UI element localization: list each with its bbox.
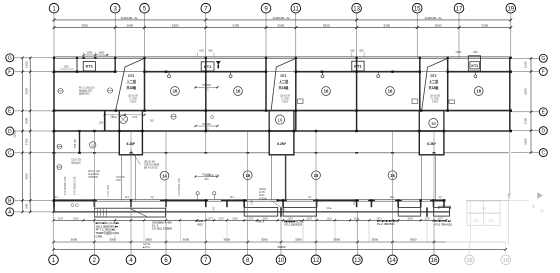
svg-text:3230: 3230 <box>232 217 238 220</box>
svg-text:16: 16 <box>476 89 481 94</box>
svg-text:1300: 1300 <box>63 67 69 69</box>
grid bubble 5 (top) <box>140 3 150 13</box>
svg-text:1900: 1900 <box>24 117 28 124</box>
dimension tick <box>29 152 31 154</box>
column (top wall) <box>53 57 55 59</box>
svg-text:16: 16 <box>173 89 178 94</box>
svg-text:2330: 2330 <box>73 217 79 220</box>
grid bubble A (left) <box>6 208 14 216</box>
beam tag circle <box>243 171 252 180</box>
column (wall B) <box>432 199 434 201</box>
opening rect 3 <box>449 100 455 103</box>
grid bubble 8 (bottom) <box>243 255 253 265</box>
bottom fine dimension line <box>54 219 447 221</box>
svg-text:75×200: 75×200 <box>202 122 211 126</box>
wall stub x77 <box>76 57 78 71</box>
svg-text:620: 620 <box>208 49 213 53</box>
in-plan dim 75×200 <box>196 86 218 88</box>
grid bubble 7 (top) <box>201 3 211 13</box>
grid bubble 13 (bottom) <box>353 255 363 265</box>
beam tag circle <box>234 87 243 96</box>
circle-cross symbol (wall 1 b) <box>57 165 62 170</box>
dimension tick <box>196 219 198 221</box>
beam tag circle <box>312 171 321 180</box>
grid leader C (left) <box>15 152 54 154</box>
grid line 11 extension (top) <box>295 13 297 58</box>
dimension tick <box>93 241 95 243</box>
column (wall E) <box>355 109 357 111</box>
circled tag (unit 2 shaft) <box>275 115 284 124</box>
column (top wall) <box>94 57 96 59</box>
svg-text:7x800: 7x800 <box>130 101 137 104</box>
dimension tick <box>29 71 31 73</box>
svg-text:6.2M²: 6.2M² <box>427 142 437 146</box>
KT box 3 <box>352 61 364 71</box>
grid bubble 11 (top) <box>291 3 301 13</box>
interior wall x285.6 <box>285 155 287 201</box>
svg-text:13: 13 <box>354 258 361 264</box>
grid bubble D (right) <box>539 127 547 135</box>
svg-text:750: 750 <box>481 207 486 211</box>
svg-text:10: 10 <box>278 258 285 264</box>
grid line 1 extension (top) <box>53 13 55 58</box>
grid bubble 14 (bottom) <box>388 255 398 265</box>
dimension tick <box>530 57 532 59</box>
top bay dimension line <box>54 27 511 29</box>
grid bubble 19 (top) <box>506 3 516 13</box>
svg-text:300: 300 <box>204 89 209 92</box>
svg-text:1Z-1: 1Z-1 <box>390 197 395 199</box>
column (wall D) <box>315 130 317 132</box>
faint vertical line x470 <box>469 200 471 242</box>
column (top wall) <box>143 57 145 59</box>
svg-text:G: G <box>541 56 545 62</box>
grid line 5 extension (top) <box>144 13 146 58</box>
right dimension line <box>530 58 532 152</box>
column (top wall) <box>83 57 85 59</box>
wall B dark segments <box>54 199 98 201</box>
faint underlay line <box>466 199 509 201</box>
porch box right-2 <box>434 207 450 216</box>
dimension tick <box>315 241 317 243</box>
svg-text:39600: 39600 <box>277 245 286 249</box>
left dimension line inner <box>29 58 31 212</box>
grid bubble E (left) <box>6 107 14 115</box>
column (top wall) <box>295 57 297 59</box>
svg-text:3600: 3600 <box>333 237 340 241</box>
KT box 4 <box>468 56 480 71</box>
shaft box 1 (6.2M) <box>119 131 142 155</box>
svg-text:27L·B15 150B50: 27L·B15 150B50 <box>152 227 173 231</box>
grid line 2 extension (bottom) <box>93 242 95 255</box>
wall on grid B <box>54 199 446 201</box>
dimension tick <box>204 26 207 29</box>
dimension tick <box>29 57 31 59</box>
dimension tick <box>416 26 419 29</box>
svg-text:Y10.75W30 1100: Y10.75W30 1100 <box>74 176 77 195</box>
grid bubble G (left) <box>6 54 14 62</box>
grid leader B (left) <box>15 200 54 202</box>
column (wall D) <box>93 130 95 132</box>
svg-text:1320: 1320 <box>326 217 332 220</box>
dimension tick <box>243 219 245 221</box>
grid bubble 17 (top) <box>454 3 464 13</box>
fixture symbol <box>474 75 477 78</box>
dimension tick <box>179 219 181 221</box>
wall on grid 7 <box>205 57 207 131</box>
svg-text:19: 19 <box>507 6 514 12</box>
grid line (lower plan) <box>357 212 359 242</box>
grid bubble C (right) <box>539 149 547 157</box>
svg-text:150: 150 <box>474 219 479 223</box>
grid line (lower plan) <box>53 212 55 242</box>
svg-text:11800: 11800 <box>13 130 17 138</box>
svg-text:1600: 1600 <box>98 51 104 55</box>
svg-text:1370: 1370 <box>353 217 359 220</box>
grid line 8 extension (bottom) <box>247 242 249 255</box>
dimension tick <box>280 241 282 243</box>
wall on grid 11 <box>295 57 297 131</box>
bottom bay dimension line faint extension <box>446 241 506 243</box>
svg-text:3000: 3000 <box>261 237 268 241</box>
extra thin verticals in dim band <box>114 220 116 242</box>
svg-text:620: 620 <box>350 49 355 53</box>
shaft side walls E to D <box>118 111 120 131</box>
dimension tick <box>458 26 461 29</box>
svg-text:3000: 3000 <box>109 237 116 241</box>
column (wall D) <box>293 130 295 132</box>
grid leader D (left) <box>15 130 54 132</box>
small circle x212 <box>211 116 214 119</box>
svg-text:Y10.75W30 1700: Y10.75W30 1700 <box>64 176 67 195</box>
column (wall F) <box>295 71 297 73</box>
dimension tick <box>205 219 207 221</box>
shaft box 2 side extension <box>270 155 272 201</box>
svg-text:5300: 5300 <box>384 23 391 27</box>
svg-text:3230: 3230 <box>407 217 413 220</box>
svg-text:B1B 7B0: B1B 7B0 <box>75 138 77 148</box>
dimension tick <box>204 19 207 22</box>
svg-text:11: 11 <box>293 6 300 12</box>
dimension tick <box>530 151 532 153</box>
column (wall E) <box>420 109 422 111</box>
svg-text:上二层: 上二层 <box>127 79 137 84</box>
column (wall F) <box>53 71 55 73</box>
svg-text:300: 300 <box>204 178 209 181</box>
svg-text:17: 17 <box>456 6 463 12</box>
svg-text:4T30B: 4T30B <box>259 197 267 200</box>
grid leader G (left) <box>15 57 54 59</box>
beam tag circle <box>474 87 483 96</box>
svg-text:1200: 1200 <box>524 61 528 68</box>
leader line <box>272 201 286 211</box>
fixture symbol <box>168 75 171 78</box>
svg-text:90·: 90· <box>308 197 312 199</box>
grid bubble C (left) <box>6 149 14 157</box>
svg-text:5300: 5300 <box>323 23 330 27</box>
grid bubble 1 (bottom) <box>49 255 59 265</box>
grid bubble 12 (bottom) <box>311 255 321 265</box>
shaft box 1 side extension <box>120 155 122 201</box>
porch box left <box>94 208 165 217</box>
svg-text:P.9M0B 150: P.9M0B 150 <box>206 175 220 178</box>
column (wall B) <box>370 199 372 201</box>
svg-text:6.2M²: 6.2M² <box>277 142 287 146</box>
dimension tick <box>114 26 117 29</box>
dimension tick <box>509 19 512 22</box>
svg-text:KT1: KT1 <box>86 64 94 69</box>
column (top wall) <box>265 57 267 59</box>
hatched circle symbol (unit 1) <box>119 115 127 123</box>
grid bubble E (right) <box>539 108 547 116</box>
svg-text:7x800: 7x800 <box>432 101 439 104</box>
wall on grid A <box>54 211 450 213</box>
dimension tick <box>53 19 56 22</box>
grid bubble 6 (bottom) <box>161 255 171 265</box>
dimension tick <box>82 219 84 221</box>
grid bubble 15 (top) <box>412 3 422 13</box>
svg-text:11200(B—6): 11200(B—6) <box>121 16 138 20</box>
svg-text:1570: 1570 <box>58 217 64 220</box>
dimension tick <box>355 26 358 29</box>
stair-3 right wall <box>447 57 449 110</box>
svg-text:1700: 1700 <box>24 138 28 145</box>
porch gap stub at grid 10 <box>280 207 282 216</box>
column (wall D) <box>418 130 420 132</box>
svg-text:3600: 3600 <box>145 237 152 241</box>
dimension tick <box>93 219 95 221</box>
wall stub D to C at x79.5 <box>79 131 81 153</box>
wall on grid 1 <box>53 57 55 211</box>
circle-cross symbol <box>107 88 112 93</box>
dimension tick <box>247 241 249 243</box>
svg-text:DT1: DT1 <box>430 74 436 78</box>
opening rect 1 <box>298 99 304 104</box>
dimension tick <box>205 241 207 243</box>
svg-text:1Z-1: 1Z-1 <box>230 197 235 199</box>
column (wall B) <box>243 199 245 201</box>
svg-text:750B300: 750B300 <box>88 176 99 179</box>
in-plan dim 75×200 <box>196 176 218 178</box>
grid bubble 2 (bottom) <box>90 255 100 265</box>
KT box 1 <box>83 62 95 72</box>
grid line (lower plan) <box>130 131 132 242</box>
svg-text:KT1: KT1 <box>471 64 478 68</box>
column (wall F) <box>447 71 449 73</box>
svg-text:3600: 3600 <box>24 88 28 95</box>
wall on grid 9 <box>265 57 267 110</box>
column (wall B) <box>420 199 422 201</box>
grid line (lower plan) <box>392 131 394 242</box>
svg-text:DT1: DT1 <box>280 74 286 78</box>
dimension tick <box>334 219 336 221</box>
stair-3 left wall <box>419 57 421 110</box>
grid bubble 13 (top) <box>352 3 362 13</box>
svg-text:300: 300 <box>204 127 209 130</box>
grid leader F (left) <box>15 71 54 73</box>
column (wall E) <box>510 109 512 111</box>
faint grid bubble 18 (bottom) <box>465 255 475 265</box>
dimension tick <box>256 219 258 221</box>
svg-text:3600: 3600 <box>524 88 528 95</box>
svg-text:G: G <box>8 56 12 62</box>
grid leader G (right) <box>511 57 539 59</box>
svg-text:F: F <box>8 70 11 76</box>
column (wall F) <box>205 71 207 73</box>
column (wall F) <box>321 71 323 73</box>
column (top wall) <box>205 57 207 59</box>
grid line 12 extension (bottom) <box>315 242 317 255</box>
wall B/A pier stubs <box>53 201 55 207</box>
dimension tick <box>29 130 31 132</box>
faint vertical line x508.7 <box>508 200 510 245</box>
column (wall B) <box>205 199 207 201</box>
svg-text:1270: 1270 <box>207 217 213 220</box>
wall on grid E <box>54 110 511 112</box>
grid bubble 9 (top) <box>261 3 271 13</box>
grid line 3 extension (top) <box>114 13 116 58</box>
svg-text:13: 13 <box>353 6 360 12</box>
dimension tick <box>509 26 512 29</box>
svg-text:KT1: KT1 <box>204 64 212 69</box>
svg-text:DT1: DT1 <box>128 74 134 78</box>
grid bubble F (left) <box>6 68 14 76</box>
column (wall D) <box>268 130 270 132</box>
grid bubble 7 (bottom) <box>201 255 211 265</box>
svg-text:1570: 1570 <box>437 217 443 220</box>
column (wall D) <box>141 130 143 132</box>
bottom bay dimension line <box>54 241 447 243</box>
grid leader A (left) <box>15 211 54 213</box>
dimension tick <box>530 129 532 131</box>
svg-text:1300: 1300 <box>214 206 216 212</box>
fixture symbol <box>229 75 232 78</box>
dimension tick <box>29 199 31 201</box>
dimension tick <box>53 26 56 29</box>
faint underlay table <box>467 201 500 213</box>
svg-text:150: 150 <box>489 219 494 223</box>
svg-text:1000: 1000 <box>87 51 93 55</box>
grid line 16 extension (bottom) <box>433 242 435 255</box>
shaft box 3 side extension <box>420 155 422 201</box>
svg-text:1000: 1000 <box>524 138 528 145</box>
grid line 19 extension (top) <box>510 13 512 58</box>
svg-text:14: 14 <box>389 258 396 264</box>
stair 2 flight line <box>271 59 295 110</box>
extension lines above wall (620 dims) <box>197 53 199 58</box>
grid line 7 extension (bottom) <box>205 242 207 255</box>
dimension tick <box>282 219 284 221</box>
floor line across stairwells (grid F) <box>115 71 144 73</box>
wall on grid D <box>54 130 511 132</box>
svg-text:620: 620 <box>199 49 204 53</box>
dim under wall E unit1 <box>105 114 145 116</box>
column (wall F) <box>76 71 78 73</box>
dimension tick <box>356 241 358 243</box>
beam tag circle <box>386 87 395 96</box>
svg-text:1700: 1700 <box>524 118 528 125</box>
svg-text:KT1: KT1 <box>354 64 362 69</box>
room tag circle <box>90 142 96 148</box>
column (wall B) <box>315 199 317 201</box>
column (wall F) <box>265 71 267 73</box>
svg-text:16: 16 <box>278 117 283 122</box>
column (wall B) <box>93 199 95 201</box>
column (wall F) <box>165 71 167 73</box>
svg-text:3320: 3320 <box>262 217 268 220</box>
line on grid C <box>54 152 120 154</box>
column (wall B) <box>277 199 279 201</box>
svg-text:620: 620 <box>359 49 364 53</box>
column (top wall) <box>447 57 449 59</box>
grid leader E (right) <box>511 111 539 113</box>
svg-text:19: 19 <box>503 258 509 264</box>
small column circles under wall B <box>71 204 74 207</box>
in-plan dim 75×200 <box>196 125 218 127</box>
porch box mid-1 <box>244 207 278 216</box>
column (wall B) <box>130 199 132 201</box>
grid leader F (right) <box>511 71 539 73</box>
svg-text:16: 16 <box>236 89 241 94</box>
grid line (lower plan) <box>205 212 207 242</box>
svg-text:1Z-1: 1Z-1 <box>125 197 130 199</box>
top wall dim 1000/1600 <box>84 54 108 56</box>
svg-text:7x800: 7x800 <box>282 101 289 104</box>
KT box 2 <box>201 62 214 71</box>
svg-text:16: 16 <box>324 89 329 94</box>
svg-text:750B3号加固nL50A: 750B3号加固nL50A <box>96 231 120 235</box>
column (top wall) <box>356 57 358 59</box>
dimension tick <box>143 26 146 29</box>
svg-text:12200(B—6): 12200(B—6) <box>424 16 441 20</box>
column (wall E) <box>447 109 449 111</box>
wall on grid F <box>54 71 116 73</box>
porch steps hatch <box>97 209 99 217</box>
column (wall F) <box>391 71 393 73</box>
dimension tick <box>432 219 434 221</box>
svg-text:1180: 1180 <box>354 199 356 205</box>
svg-text:940: 940 <box>473 50 478 54</box>
wall on grid 19 <box>509 57 511 131</box>
beam tag circle <box>322 87 331 96</box>
circle-cross symbol <box>58 88 63 93</box>
column (wall E) <box>53 109 55 111</box>
svg-text:1270: 1270 <box>306 217 312 220</box>
svg-text:4Q: 4Q <box>438 197 441 199</box>
grid bubble 10 (bottom) <box>276 255 286 265</box>
column (wall B) <box>165 199 167 201</box>
top exterior wall (grid G) <box>54 56 511 58</box>
column (wall F) <box>355 71 357 73</box>
dimension tick <box>165 241 167 243</box>
svg-text:1Z-1: 1Z-1 <box>54 197 59 199</box>
svg-text:D: D <box>8 129 12 135</box>
column (top wall) <box>114 57 116 59</box>
svg-text:C: C <box>8 151 12 157</box>
svg-text:15: 15 <box>414 6 421 12</box>
svg-text:共18级: 共18级 <box>279 85 290 90</box>
porch box mid-2 <box>283 207 317 216</box>
grid bubble G (right) <box>539 54 547 62</box>
circle-cross symbol <box>171 114 176 119</box>
svg-text:75×200: 75×200 <box>202 83 211 87</box>
grid line (lower plan) <box>315 131 317 242</box>
grid line (lower plan) <box>433 131 435 242</box>
grid line 15 extension (top) <box>416 13 418 58</box>
svg-text:2600: 2600 <box>435 23 442 27</box>
svg-text:共18级: 共18级 <box>126 85 137 90</box>
column (wall F) <box>510 71 512 73</box>
